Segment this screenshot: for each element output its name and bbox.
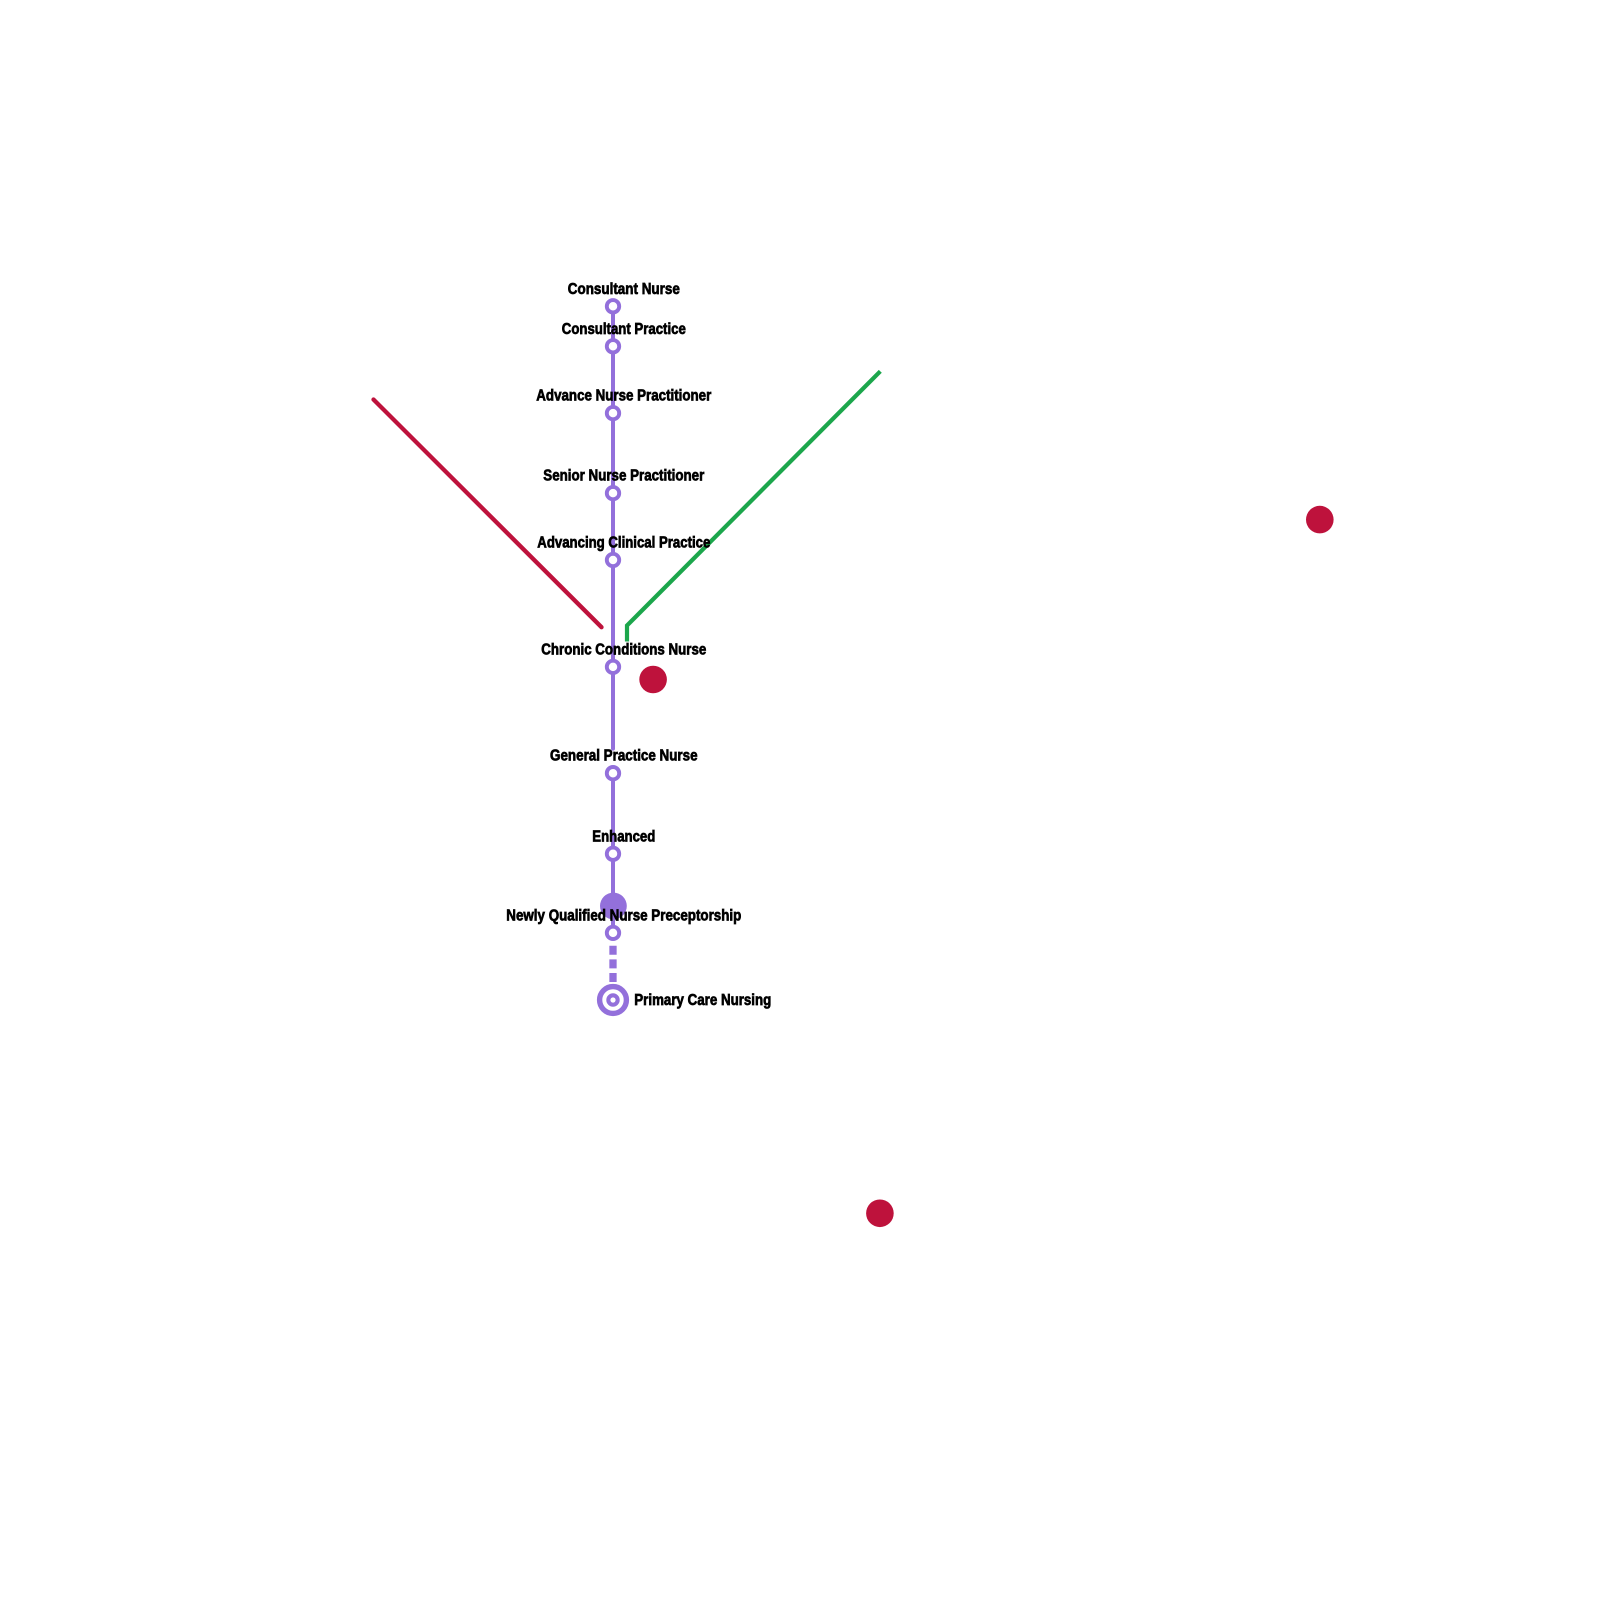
station Chronic Conditions Nurse [607, 661, 619, 673]
purple main line lower segment [611, 773, 615, 933]
svg-text:Advance Nurse Practitioner: Advance Nurse Practitioner [536, 388, 711, 405]
crimson dot near Chronic Conditions Nurse [639, 666, 667, 694]
svg-text:Consultant Practice: Consultant Practice [562, 321, 686, 338]
crimson branch line [374, 400, 602, 628]
station Advancing Clinical Practice [607, 554, 619, 566]
junction filled circle [600, 893, 627, 920]
station Consultant Practice [607, 340, 619, 352]
svg-text:Senior Nurse Practitioner: Senior Nurse Practitioner [543, 468, 704, 485]
green branch line [627, 371, 880, 641]
svg-text:Consultant Nurse: Consultant Nurse [568, 281, 680, 298]
purple main line upper segment [611, 306, 615, 748]
crimson dot bottom [866, 1200, 894, 1228]
svg-text:Primary Care Nursing: Primary Care Nursing [634, 992, 771, 1009]
station Newly Qualified Nurse Preceptorship [607, 927, 619, 939]
station Advance Nurse Practitioner [607, 407, 619, 419]
svg-text:Enhanced: Enhanced [592, 828, 655, 845]
terminus outer circle [600, 987, 627, 1014]
svg-text:Chronic Conditions Nurse: Chronic Conditions Nurse [541, 641, 706, 658]
svg-text:Advancing Clinical Practice: Advancing Clinical Practice [537, 535, 710, 552]
terminus inner circle [608, 995, 617, 1004]
dashed continuation [609, 946, 616, 984]
crimson dot right [1306, 506, 1334, 534]
station Consultant Nurse [607, 300, 619, 312]
svg-text:Newly Qualified Nurse Precepto: Newly Qualified Nurse Preceptorship [506, 907, 741, 924]
svg-text:General Practice Nurse: General Practice Nurse [550, 748, 698, 765]
station General Practice Nurse [607, 767, 619, 779]
station Enhanced [607, 848, 619, 860]
station Senior Nurse Practitioner [607, 487, 619, 499]
